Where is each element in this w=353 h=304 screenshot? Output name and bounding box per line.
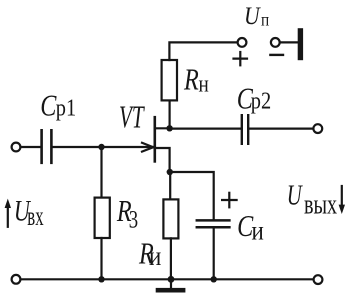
wire Cp2 to output bbox=[249, 128, 313, 130]
wire source node down to Ri bbox=[169, 172, 171, 199]
wire drain node to Cp2 bbox=[170, 128, 241, 130]
wire Cp1 to gate bbox=[53, 146, 153, 148]
terminal Up minus bbox=[271, 38, 280, 47]
wire source node to Ci bbox=[170, 172, 214, 219]
node gate junction bbox=[98, 144, 104, 150]
svg-text:и: и bbox=[252, 217, 264, 246]
resistor Ri bbox=[163, 199, 178, 238]
bottom rail wire bbox=[21, 278, 314, 280]
wire input to Cp1 bbox=[21, 146, 40, 148]
svg-text:п: п bbox=[261, 9, 269, 29]
svg-text:U: U bbox=[287, 181, 304, 212]
plus sign at Up bbox=[234, 52, 248, 65]
node drain junction bbox=[166, 125, 172, 131]
wire Rz to bottom rail bbox=[100, 238, 102, 279]
gate arrowhead bbox=[142, 143, 153, 147]
bottom-left terminal bbox=[12, 275, 21, 284]
svg-text:3: 3 bbox=[129, 205, 138, 233]
resistor Rn bbox=[162, 60, 177, 100]
svg-text:R: R bbox=[183, 63, 199, 98]
node Ri bottom bbox=[168, 276, 175, 283]
wire drain up to Rn bbox=[169, 100, 171, 128]
battery bar bbox=[298, 28, 303, 60]
svg-text:вх: вх bbox=[27, 201, 43, 231]
capacitor Cp2 bbox=[242, 115, 248, 144]
svg-text:U: U bbox=[244, 2, 261, 30]
bottom-right terminal bbox=[314, 275, 323, 284]
svg-text:C: C bbox=[40, 89, 57, 124]
arrow Uvx (up) bbox=[5, 199, 11, 227]
capacitor Cp1 bbox=[42, 130, 52, 163]
resistor R3 (Rz) bbox=[95, 198, 110, 238]
capacitor Ci bbox=[197, 220, 230, 227]
wire gate node down to Rz bbox=[100, 147, 102, 198]
ground stub bbox=[170, 279, 172, 288]
node Ci bottom bbox=[211, 276, 217, 282]
svg-text:VT: VT bbox=[119, 99, 145, 134]
svg-text:р1: р1 bbox=[56, 94, 76, 121]
wire Ri to bottom rail bbox=[170, 238, 172, 279]
node source junction bbox=[167, 169, 173, 175]
svg-text:н: н bbox=[199, 71, 210, 98]
wire Ci to bottom rail bbox=[213, 229, 215, 280]
ground bbox=[156, 288, 186, 293]
wire source lead bbox=[156, 148, 170, 172]
output terminal (right) bbox=[313, 124, 322, 133]
minus sign at Up bbox=[270, 54, 283, 56]
svg-text:и: и bbox=[149, 242, 161, 271]
arrow Uvyx (down) bbox=[339, 186, 345, 214]
wire Rn top to supply bbox=[169, 42, 237, 60]
node Rz bottom bbox=[98, 276, 104, 282]
terminal Up plus bbox=[238, 38, 247, 47]
plus sign at Ci bbox=[222, 193, 237, 208]
transistor VT channel bar bbox=[154, 117, 157, 161]
input terminal (left) bbox=[12, 143, 21, 152]
svg-text:вых: вых bbox=[304, 189, 337, 220]
wire drain lead bbox=[156, 127, 170, 129]
svg-text:р2: р2 bbox=[251, 87, 271, 114]
wire minus terminal to bar bbox=[280, 41, 298, 43]
